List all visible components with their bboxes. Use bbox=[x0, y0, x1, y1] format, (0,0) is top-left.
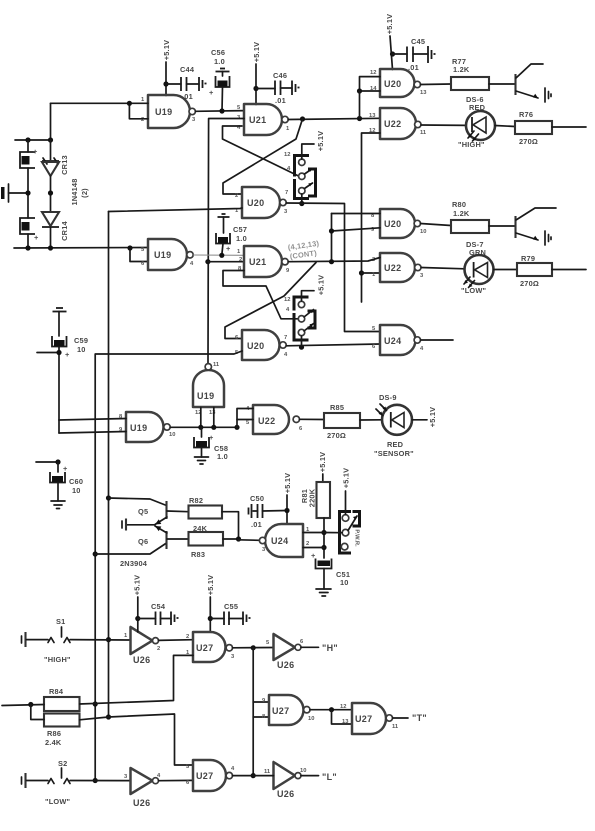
svg-text:270Ω: 270Ω bbox=[520, 279, 539, 288]
ground (C60) bbox=[51, 501, 65, 509]
svg-text:R79: R79 bbox=[521, 254, 535, 263]
svg-text:7: 7 bbox=[284, 335, 287, 341]
LED DS-7 GRN bbox=[421, 240, 517, 295]
svg-text:U26: U26 bbox=[133, 798, 150, 808]
wire U19D output row bbox=[170, 425, 239, 430]
node: C46 tap junction bbox=[253, 86, 258, 91]
capacitor C45 bbox=[393, 37, 436, 72]
capacitor C51 bbox=[311, 551, 350, 589]
wire U21B output row bbox=[288, 258, 380, 265]
NAND gate U19 (D) bbox=[119, 412, 175, 442]
capacitor C56 bbox=[209, 48, 230, 111]
svg-text:2: 2 bbox=[235, 193, 238, 199]
wire cross-couple A (U21A out to U20A pin2) bbox=[223, 119, 303, 194]
svg-text:"LOW": "LOW" bbox=[461, 286, 487, 295]
wire cross-couple B' (U21B pin8 to header J2) bbox=[223, 271, 298, 319]
svg-text:13: 13 bbox=[420, 90, 427, 96]
bus U27A out / U27B-in / U27D out (x=253) bbox=[251, 648, 269, 778]
svg-text:1.0: 1.0 bbox=[217, 452, 228, 461]
wire cross-couple A' (U21B out to U20E pin6) bbox=[225, 263, 316, 339]
svg-text:U24: U24 bbox=[271, 536, 288, 546]
NAND gate U27 (C) bbox=[186, 760, 253, 791]
svg-text:2: 2 bbox=[186, 634, 189, 640]
wire R86 right node to U27C pin5 bbox=[80, 714, 194, 765]
wire R84 right node to U27A pin1 bbox=[80, 655, 194, 704]
svg-text:R82: R82 bbox=[189, 496, 203, 505]
ground (Q high emitter) bbox=[545, 88, 551, 102]
inverter U26 (D) "L" bbox=[253, 762, 337, 799]
svg-text:+5.1V: +5.1V bbox=[133, 575, 142, 596]
svg-text:+5.1V: +5.1V bbox=[283, 473, 292, 494]
capacitor C50 bbox=[249, 494, 288, 529]
transistor Q6 bbox=[95, 526, 188, 554]
node: C45 tap junction bbox=[390, 51, 395, 56]
ground (C58) bbox=[195, 457, 209, 464]
svg-text:+5.1V: +5.1V bbox=[385, 14, 394, 35]
svg-text:7: 7 bbox=[285, 190, 288, 196]
svg-text:U22: U22 bbox=[258, 416, 275, 426]
label 1N4148 (2) bbox=[70, 178, 89, 205]
common emitter bar (Q5/Q6) bbox=[122, 519, 155, 531]
svg-text:C59: C59 bbox=[74, 336, 88, 345]
electrolytic cap left (diode cluster top) bbox=[20, 140, 38, 193]
svg-text:+: + bbox=[209, 433, 214, 442]
wire U27B out to U27D bbox=[310, 707, 352, 724]
transistor Q (low driver) bbox=[516, 208, 557, 240]
NAND gate U27 (A) bbox=[186, 632, 235, 662]
+5.1V + resistor R81 220K bbox=[300, 452, 330, 558]
wire U19A inputs bbox=[15, 101, 148, 143]
svg-text:+5.1V: +5.1V bbox=[206, 575, 215, 596]
wire U21A output row to U22 pin13 bbox=[288, 116, 380, 122]
svg-text:R80: R80 bbox=[452, 200, 466, 209]
inverter U26 (A) bbox=[124, 627, 193, 665]
NAND gate U20 (A) bbox=[235, 187, 288, 218]
svg-text:270Ω: 270Ω bbox=[327, 431, 346, 440]
svg-text:10: 10 bbox=[169, 432, 175, 438]
svg-text:+5.1V: +5.1V bbox=[162, 40, 171, 61]
wire cross-couple B (U21A pin4 to header J1) bbox=[223, 126, 299, 176]
resistor R86 2.4K bbox=[44, 714, 80, 748]
svg-text:12: 12 bbox=[284, 152, 290, 158]
svg-text:U21: U21 bbox=[249, 257, 266, 267]
capacitor C44 bbox=[166, 65, 207, 101]
svg-text:U27: U27 bbox=[355, 714, 372, 724]
svg-text:+: + bbox=[65, 350, 70, 359]
svg-text:(2): (2) bbox=[80, 188, 89, 198]
wire C59 node to U19D inputs bbox=[59, 419, 126, 434]
svg-text:RED: RED bbox=[387, 440, 404, 449]
svg-text:13: 13 bbox=[209, 410, 216, 416]
svg-text:R84: R84 bbox=[49, 687, 64, 696]
+5.1V rail label (U21 area) bbox=[252, 42, 261, 105]
svg-text:C60: C60 bbox=[69, 477, 83, 486]
wire U24A output bbox=[421, 339, 454, 341]
svg-text:S2: S2 bbox=[58, 759, 67, 768]
svg-text:U20: U20 bbox=[384, 79, 401, 89]
wire header J1 bottom to U20A output bbox=[299, 194, 304, 206]
svg-text:11: 11 bbox=[264, 769, 271, 775]
svg-text:12: 12 bbox=[370, 70, 376, 76]
svg-text:CR13: CR13 bbox=[60, 155, 69, 175]
switch S1 bbox=[22, 617, 131, 664]
NAND gate U22 (A) bbox=[369, 108, 427, 139]
svg-text:U22: U22 bbox=[384, 263, 401, 273]
label (4,12,13) (CONT) bbox=[287, 239, 320, 261]
+5.1V + capacitor C55 bbox=[206, 575, 251, 632]
+5.1V (U24B power) bbox=[283, 473, 292, 524]
NAND gate U19 (C) vertical inverter bbox=[193, 362, 224, 427]
node bus: U19C output feedback (x=208) bbox=[205, 119, 244, 364]
svg-text:C55: C55 bbox=[224, 602, 238, 611]
LED DS-6 RED bbox=[421, 95, 515, 149]
switch S2 bbox=[22, 759, 131, 806]
svg-text:+5.1V: +5.1V bbox=[428, 407, 437, 428]
svg-text:+5.1V: +5.1V bbox=[317, 275, 326, 296]
inverter U26 (B) "H" bbox=[266, 634, 338, 670]
capacitor C46 bbox=[256, 71, 300, 105]
svg-text:10: 10 bbox=[72, 486, 81, 495]
capacitor C60 bbox=[36, 459, 83, 501]
resistor R82 24K bbox=[189, 496, 223, 533]
svg-text:1.0: 1.0 bbox=[236, 234, 247, 243]
svg-text:2: 2 bbox=[141, 117, 144, 123]
svg-text:C45: C45 bbox=[411, 37, 425, 46]
svg-text:U19: U19 bbox=[130, 423, 147, 433]
NAND gate U20 (B) bbox=[370, 69, 427, 97]
NAND gate U20 (E) bbox=[235, 330, 288, 360]
svg-text:"L": "L" bbox=[322, 772, 337, 782]
svg-text:2.4K: 2.4K bbox=[45, 738, 62, 747]
svg-text:U27: U27 bbox=[272, 706, 289, 716]
NAND gate U22 (B) bbox=[372, 253, 424, 282]
+5.1V rail label (U20B area) bbox=[385, 14, 394, 70]
wire U20B tied inputs bracket bbox=[357, 77, 380, 119]
resistor R80 1.2K bbox=[421, 200, 516, 233]
svg-text:U26: U26 bbox=[277, 660, 294, 670]
transistor Q5 bbox=[109, 498, 189, 525]
+5.1V + capacitor C54 bbox=[133, 575, 179, 632]
svg-text:11: 11 bbox=[213, 362, 220, 368]
svg-text:DS-9: DS-9 bbox=[379, 393, 397, 402]
NAND gate U22 (C) bbox=[246, 405, 303, 434]
wire U24B inputs to node bbox=[303, 533, 324, 548]
svg-text:270Ω: 270Ω bbox=[519, 137, 538, 146]
svg-text:Q6: Q6 bbox=[138, 537, 148, 546]
svg-text:"HIGH": "HIGH" bbox=[44, 655, 71, 664]
svg-text:R85: R85 bbox=[330, 403, 344, 412]
wire U19B output (light) to U21B bbox=[193, 253, 244, 258]
svg-text:C50: C50 bbox=[250, 494, 264, 503]
svg-text:.01: .01 bbox=[251, 520, 262, 529]
svg-text:U19: U19 bbox=[155, 107, 172, 117]
capacitor C58 bbox=[194, 427, 228, 461]
svg-text:+5.1V: +5.1V bbox=[318, 452, 327, 473]
svg-text:C46: C46 bbox=[273, 71, 287, 80]
svg-text:S1: S1 bbox=[56, 617, 65, 626]
+5.1V (header J3) bbox=[342, 468, 351, 515]
svg-text:2: 2 bbox=[157, 646, 160, 652]
+5.1V rail label (U19 area) bbox=[162, 40, 171, 96]
wire U20E output to U24A pin6 bbox=[286, 344, 380, 346]
svg-text:U20: U20 bbox=[247, 198, 264, 208]
svg-text:12: 12 bbox=[284, 297, 290, 303]
resistor R76 270 bbox=[515, 110, 586, 146]
svg-text:2N3904: 2N3904 bbox=[120, 559, 148, 568]
transistor Q (high driver) bbox=[516, 64, 544, 98]
svg-text:U27: U27 bbox=[196, 771, 213, 781]
ground (Q low emitter) bbox=[545, 231, 551, 245]
svg-text:U24: U24 bbox=[384, 336, 401, 346]
svg-text:U26: U26 bbox=[133, 655, 150, 665]
svg-text:1.2K: 1.2K bbox=[453, 65, 470, 74]
resistor R83 bbox=[189, 532, 224, 559]
svg-text:.01: .01 bbox=[275, 96, 286, 105]
+5.1V (header J2) bbox=[302, 275, 326, 301]
svg-text:+5.1V: +5.1V bbox=[316, 131, 325, 152]
resistor R84 bbox=[44, 687, 80, 711]
NAND gate U24 (A) bbox=[372, 325, 424, 355]
svg-text:+: + bbox=[33, 147, 38, 156]
NAND gate U24 (B) mirrored bbox=[259, 524, 310, 557]
ground bar + capacitor C57 bbox=[216, 214, 247, 255]
svg-text:+: + bbox=[226, 244, 231, 253]
ground (C51) bbox=[316, 589, 331, 596]
NAND gate U27 (D) bbox=[340, 703, 427, 734]
svg-text:1.2K: 1.2K bbox=[453, 209, 470, 218]
header J3 PWR bbox=[324, 512, 360, 554]
svg-text:R83: R83 bbox=[191, 550, 205, 559]
svg-text:+: + bbox=[34, 233, 39, 242]
svg-text:+: + bbox=[209, 88, 214, 97]
wire diode bottom row to U19B bbox=[14, 245, 148, 261]
svg-text:U26: U26 bbox=[277, 789, 294, 799]
svg-text:.01: .01 bbox=[408, 63, 419, 72]
svg-text:13: 13 bbox=[369, 113, 376, 119]
svg-text:1.0: 1.0 bbox=[214, 57, 225, 66]
inverter U26 (C) bbox=[124, 768, 193, 808]
svg-text:U22: U22 bbox=[384, 119, 401, 129]
wire U19A output to U21 bbox=[195, 108, 244, 113]
NAND gate U20 (C) bbox=[371, 209, 426, 238]
svg-text:C54: C54 bbox=[151, 602, 166, 611]
svg-text:10: 10 bbox=[300, 768, 306, 774]
svg-text:"H": "H" bbox=[322, 643, 338, 653]
svg-text:13: 13 bbox=[342, 719, 349, 725]
NAND gate U27 (B) bbox=[262, 695, 314, 725]
NAND gate U19 (B) bbox=[141, 239, 194, 270]
svg-text:C56: C56 bbox=[211, 48, 225, 57]
svg-text:Q5: Q5 bbox=[138, 507, 148, 516]
svg-text:C57: C57 bbox=[233, 225, 247, 234]
NAND gate U19 (A) bbox=[141, 95, 196, 128]
LED DS-9 RED SENSOR bbox=[360, 393, 437, 458]
svg-text:R76: R76 bbox=[519, 110, 533, 119]
svg-text:220K: 220K bbox=[308, 488, 317, 507]
node bus U22A pin12 to U22B pin1 bbox=[359, 133, 380, 302]
diode CR13 bbox=[42, 140, 69, 193]
electrolytic cap left (diode cluster bottom) bbox=[20, 193, 39, 248]
svg-text:"SENSOR": "SENSOR" bbox=[374, 449, 414, 458]
svg-text:+: + bbox=[63, 464, 68, 473]
svg-text:2: 2 bbox=[239, 257, 242, 263]
ground bar + capacitor C59 bbox=[37, 308, 88, 420]
wire R84/R86 left node bbox=[2, 702, 44, 720]
ground terminal left bbox=[1, 184, 53, 202]
resistor R79 270 bbox=[517, 254, 586, 288]
svg-text:U21: U21 bbox=[249, 115, 266, 125]
svg-text:10: 10 bbox=[77, 345, 86, 354]
svg-text:U20: U20 bbox=[247, 341, 264, 351]
svg-text:10: 10 bbox=[340, 578, 349, 587]
resistor R77 1.2K bbox=[421, 57, 516, 90]
wire U27A output node bbox=[233, 645, 274, 650]
node: C44 tap junction bbox=[163, 81, 168, 86]
svg-text:C44: C44 bbox=[180, 65, 195, 74]
diode CR14 bbox=[42, 193, 69, 248]
svg-text:CR14: CR14 bbox=[60, 220, 69, 240]
wire U20A pin1 from left bus bbox=[109, 208, 243, 212]
svg-text:12: 12 bbox=[340, 704, 346, 710]
svg-text:10: 10 bbox=[420, 229, 426, 235]
wire U20A output to U24A pin5 (bus x=344.5) bbox=[286, 203, 380, 332]
svg-text:R86: R86 bbox=[47, 729, 61, 738]
wire U22C tied inputs bbox=[237, 409, 253, 428]
svg-text:11: 11 bbox=[420, 130, 427, 136]
svg-text:+5.1V: +5.1V bbox=[252, 42, 261, 63]
svg-text:10: 10 bbox=[308, 716, 314, 722]
svg-text:P.W.R.: P.W.R. bbox=[354, 529, 360, 547]
svg-text:2: 2 bbox=[306, 541, 309, 547]
svg-text:1N4148: 1N4148 bbox=[70, 178, 79, 205]
header J1 (jumper block) bbox=[284, 152, 316, 199]
svg-text:11: 11 bbox=[392, 724, 399, 730]
NAND gate U21 (A) 3-input bbox=[237, 104, 290, 135]
NAND gate U21 (B) 3-input bbox=[237, 246, 290, 277]
wire bus x=208 to U21B pin2 bbox=[208, 261, 244, 263]
wire U20C inputs from bus x=331 bbox=[329, 214, 380, 262]
svg-text:U27: U27 bbox=[196, 643, 213, 653]
wire R82/R83 junction to U24B output bbox=[222, 512, 259, 542]
bus L2 (x=108.5 vertical) bbox=[106, 212, 111, 720]
resistor R85 270 bbox=[300, 403, 361, 440]
svg-text:"LOW": "LOW" bbox=[45, 797, 71, 806]
+5.1V (header J1) bbox=[302, 131, 325, 159]
header J2 (jumper block) bbox=[284, 297, 315, 341]
bus L1 (x=95 vertical) with U20E pin5 wire bbox=[93, 351, 242, 783]
svg-text:"T": "T" bbox=[412, 713, 427, 723]
wire header J2 bottom to U20E output bbox=[299, 336, 304, 350]
svg-text:U19: U19 bbox=[197, 391, 214, 401]
svg-text:+5.1V: +5.1V bbox=[342, 468, 351, 489]
svg-text:"HIGH": "HIGH" bbox=[458, 140, 485, 149]
svg-text:U19: U19 bbox=[154, 250, 171, 260]
svg-text:U20: U20 bbox=[384, 219, 401, 229]
